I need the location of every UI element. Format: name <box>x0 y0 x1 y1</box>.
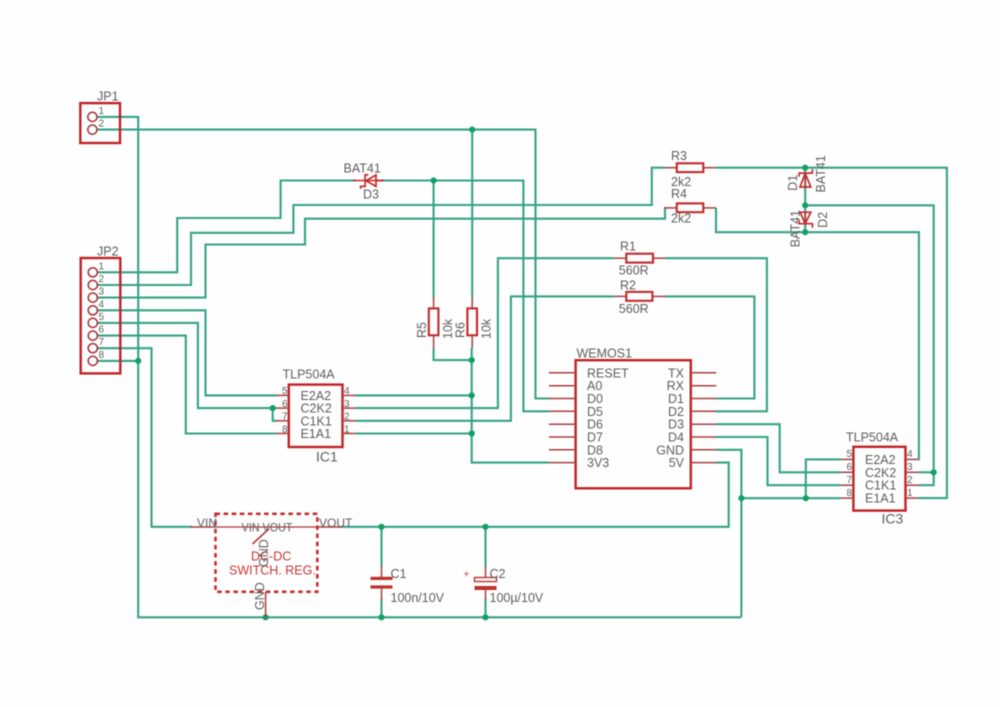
svg-text:D3: D3 <box>363 188 379 202</box>
wire JP2.6 to IC1 pin8 <box>97 336 276 434</box>
svg-text:IC3: IC3 <box>882 511 904 527</box>
wire JP2.1 staircase to D3 <box>97 181 356 273</box>
svg-text:IC1: IC1 <box>316 449 338 465</box>
svg-text:E2A2: E2A2 <box>865 453 896 467</box>
svg-text:GND: GND <box>257 539 271 567</box>
svg-text:D1: D1 <box>786 175 800 191</box>
node C2 bottom rail <box>482 614 488 620</box>
optocoupler IC3 TLP504A <box>841 431 919 527</box>
wire JP2.2 staircase to R3 <box>97 168 664 285</box>
svg-text:10k: 10k <box>480 318 494 339</box>
svg-text:E1A1: E1A1 <box>865 492 896 506</box>
svg-text:BAT41: BAT41 <box>814 155 828 192</box>
node JP1.2/R6 <box>469 127 475 133</box>
wire VOUT 5V rail <box>343 463 729 527</box>
svg-text:D2: D2 <box>816 212 830 228</box>
wire C1 top <box>380 527 382 567</box>
resistor R6 10k <box>454 297 494 348</box>
svg-text:JP2: JP2 <box>97 245 119 259</box>
node IC3 pin5 tie <box>803 495 809 501</box>
node IC1 pin6/7 <box>270 405 276 411</box>
svg-text:C2K2: C2K2 <box>865 466 896 480</box>
svg-text:1: 1 <box>99 261 105 272</box>
wire JP1.1 to JP2.8 to GND rail <box>97 117 741 617</box>
svg-text:8: 8 <box>846 488 852 499</box>
resistor R5 10k <box>415 297 455 348</box>
wire R1 to IC1 pin3 <box>355 258 613 408</box>
node D1 top <box>802 165 808 171</box>
svg-text:4: 4 <box>344 386 350 397</box>
wire JP2.7 to DCDC VIN <box>97 348 192 527</box>
svg-text:R2: R2 <box>620 279 636 293</box>
wire R4 to D2 to IC3 pin4 <box>716 208 919 460</box>
wire R1 to WEMOS D2 <box>666 258 767 411</box>
svg-text:560R: 560R <box>619 264 649 278</box>
svg-text:JP1: JP1 <box>97 90 119 104</box>
node D1/D2 mid <box>802 202 808 208</box>
wire WEMOS D3 to IC3 pin6 <box>716 424 841 472</box>
svg-text:WEMOS1: WEMOS1 <box>577 347 633 361</box>
wire IC1 pin7 tie <box>273 408 276 421</box>
svg-text:3: 3 <box>907 462 913 473</box>
svg-text:6: 6 <box>99 325 105 336</box>
svg-text:RESET: RESET <box>587 366 629 380</box>
wire R2 to IC1 pin2 <box>355 296 613 420</box>
svg-text:4: 4 <box>907 449 913 460</box>
svg-text:VIN VOUT: VIN VOUT <box>242 521 294 535</box>
wire R6 bottom 3V3 rail <box>472 348 549 463</box>
node IC1 pin4 3V3 <box>469 392 475 398</box>
svg-text:560R: 560R <box>619 302 649 316</box>
wire WEMOS GND down <box>716 450 741 618</box>
svg-text:6: 6 <box>282 399 288 410</box>
diode D1 BAT41 <box>786 155 828 192</box>
svg-text:GND: GND <box>253 582 267 610</box>
connector JP1 <box>80 90 120 144</box>
svg-text:6: 6 <box>846 462 852 473</box>
wire JP2.3 staircase to R4 <box>97 208 665 298</box>
svg-text:C2: C2 <box>490 567 506 581</box>
wire R3 to D1 to IC3 pin1 <box>716 168 947 498</box>
optocoupler IC1 TLP504A <box>276 368 355 465</box>
node C1 top rail <box>378 524 384 530</box>
svg-text:TLP504A: TLP504A <box>846 431 899 445</box>
node JP2.8/GND <box>135 358 141 364</box>
wire GND to IC3 pin8 <box>741 497 840 499</box>
node IC1 pin1 3V3 <box>469 430 475 436</box>
wire JP2.4 to IC1 pin5 <box>97 310 276 395</box>
svg-text:C1: C1 <box>391 567 407 581</box>
svg-text:5: 5 <box>846 449 852 460</box>
diode D2 BAT41 <box>789 210 830 247</box>
node GND/IC3 line <box>738 495 744 501</box>
svg-text:8: 8 <box>282 424 288 435</box>
capacitor C1 100n/10V <box>371 566 445 605</box>
wire C2 bottom <box>484 599 486 617</box>
svg-text:TX: TX <box>668 366 685 380</box>
svg-text:1: 1 <box>344 424 350 435</box>
svg-text:D2: D2 <box>668 405 684 419</box>
node IC3 pin3 tie <box>931 469 937 475</box>
wire R6 top drop <box>471 130 473 298</box>
svg-text:+: + <box>464 570 470 581</box>
svg-text:SWITCH. REG.: SWITCH. REG. <box>229 564 316 578</box>
wire C1 bottom <box>380 599 382 617</box>
node D2 bottom <box>802 229 808 235</box>
svg-text:VIN: VIN <box>197 516 217 530</box>
svg-text:7: 7 <box>282 412 288 423</box>
svg-text:1: 1 <box>99 106 105 117</box>
svg-text:2: 2 <box>99 274 105 285</box>
svg-text:5: 5 <box>282 386 288 397</box>
wire C2 top <box>484 527 486 567</box>
svg-text:R6: R6 <box>454 322 468 338</box>
node D3/R5 <box>431 177 437 183</box>
wire IC1 pin4 to 3V3 <box>355 394 471 396</box>
svg-text:3: 3 <box>344 399 350 410</box>
svg-text:2: 2 <box>99 119 105 130</box>
svg-text:2k2: 2k2 <box>671 212 691 226</box>
connector JP2 <box>81 245 121 374</box>
svg-text:8: 8 <box>99 350 105 361</box>
resistor R1 560R <box>614 240 666 278</box>
microcontroller WEMOS1 <box>549 347 716 489</box>
DC-DC switching regulator module <box>191 514 354 618</box>
svg-text:VOUT: VOUT <box>319 516 353 530</box>
node DCDC GND rail <box>263 614 269 620</box>
svg-text:7: 7 <box>99 337 105 348</box>
svg-text:5: 5 <box>99 312 105 323</box>
wire IC3 pin3 <box>918 471 933 473</box>
svg-text:100µ/10V: 100µ/10V <box>490 591 544 605</box>
svg-text:R4: R4 <box>671 187 687 201</box>
wire IC1 pin1 to 3V3 <box>355 432 471 434</box>
svg-text:R3: R3 <box>671 149 687 163</box>
wire JP1.2 to WEMOS D0 <box>97 130 549 399</box>
wire R5 bottom <box>434 348 472 360</box>
svg-text:BAT41: BAT41 <box>789 210 803 247</box>
resistor R2 560R <box>614 279 666 316</box>
wire JP2.8 stub <box>97 360 138 362</box>
node C2 top rail <box>482 524 488 530</box>
node R5/R6 bottoms <box>469 357 475 363</box>
svg-text:2: 2 <box>344 412 350 423</box>
wire WEMOS D4 to IC3 pin7 <box>716 437 841 485</box>
svg-text:1: 1 <box>907 488 913 499</box>
wire IC3 pin5 drop <box>806 459 841 498</box>
resistor R3 2k2 <box>664 149 716 189</box>
wire JP2.5 to IC1 pin6 <box>97 323 276 408</box>
svg-text:D5: D5 <box>587 405 603 419</box>
svg-text:TLP504A: TLP504A <box>283 368 336 382</box>
svg-text:5V: 5V <box>669 456 685 470</box>
wire D1 D2 column <box>804 168 806 233</box>
svg-text:100n/10V: 100n/10V <box>391 591 445 605</box>
svg-text:4: 4 <box>99 299 105 310</box>
svg-text:2: 2 <box>907 475 913 486</box>
wire R2 to WEMOS D1 <box>665 296 754 398</box>
svg-text:C1K1: C1K1 <box>865 479 896 493</box>
wire R5 top drop <box>433 181 435 298</box>
svg-text:E1A1: E1A1 <box>301 427 332 441</box>
resistor R4 2k2 <box>664 187 716 226</box>
svg-text:BAT41: BAT41 <box>344 161 381 175</box>
node C1 bottom rail <box>378 614 384 620</box>
svg-text:3: 3 <box>99 287 105 298</box>
svg-text:R5: R5 <box>415 322 429 338</box>
wire D1/D2 mid to IC3 pins 2,3 <box>805 205 934 485</box>
capacitor C2 100u/10V polarized <box>464 566 544 605</box>
svg-text:7: 7 <box>846 475 852 486</box>
diode D3 BAT41 <box>344 161 385 201</box>
svg-text:3V3: 3V3 <box>587 456 609 470</box>
wire D3 to WEMOS D5 <box>381 181 549 412</box>
svg-text:R1: R1 <box>620 240 636 254</box>
